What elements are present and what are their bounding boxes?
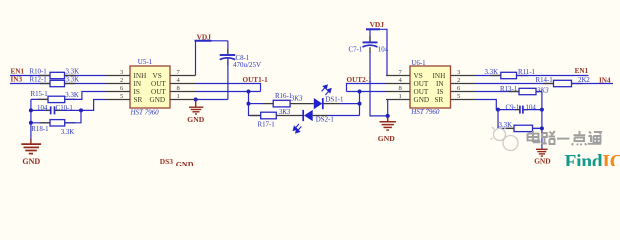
svg-text:3K3: 3K3 [278,108,291,116]
svg-text:2: 2 [457,77,460,84]
resistor R11-1 body [501,72,517,78]
svg-text:HST 7960: HST 7960 [410,108,440,116]
svg-text:DS3: DS3 [160,157,173,166]
capacitor C7-1 bottom lead (dark) [369,47,371,53]
pin 1 GND (U6 left) [386,99,410,101]
svg-text:3.3K: 3.3K [61,129,75,136]
wire U5 pin 8 (OUT1 net) [196,91,261,93]
power VDJ (left) bar [195,40,212,42]
wire C7-1 bottom down to GND net [370,52,388,116]
LED DS2-1 light arrows [293,124,301,133]
resistor R18-1 leads (dark) [40,122,50,124]
ground stem bottom-left (dark red) [30,139,32,144]
power VDJ (right) bar [366,28,380,30]
wire R13-1 to GND vertical [536,91,542,93]
svg-text:C7-1: C7-1 [349,47,363,54]
capacitor C10-1 plates [50,106,52,114]
svg-text:GND: GND [150,96,166,104]
wire GND vertical (right cluster) [541,92,543,150]
wire GND vertical to R15-1 [31,98,48,100]
pin 3 INH (U6 right) [451,75,476,77]
wire R10-1 to U5 pin 3 [65,75,107,77]
wire OUT2 bend to U6 pin 4 [347,84,387,92]
wire C8-1 bottom to U5 GND net [227,58,229,99]
svg-text:3.3K: 3.3K [66,69,80,76]
pin 5 SR (U6 right) [451,99,476,101]
svg-text:OUT: OUT [151,88,166,96]
pin 5 SR (U5 left) [106,99,130,101]
svg-text:R18-1: R18-1 [31,126,49,133]
resistor R12-1 leads (dark) [40,83,50,85]
resistor bottom-right leads (dark) [504,127,514,129]
wire bottom resistor to GND vertical [533,127,542,129]
svg-text:GND: GND [22,157,40,166]
pin 6 IS (U5 left) [106,91,130,93]
svg-text:GND: GND [187,115,204,124]
wire OUT1 down to LED branches [249,92,261,116]
resistor R10-1 leads (dark) [40,75,50,77]
svg-text:SR: SR [134,96,143,104]
resistor R12-1 body [50,80,65,86]
wire R14-1 to IN4 port [572,83,614,85]
pin 7 VS (U6 left) [386,75,410,77]
junction R16 branch (dot) [247,102,251,106]
watermark text 电路一点通 (simplified strokes) [528,131,602,145]
junction OUT1 (dot) [247,90,251,94]
capacitor C7-1 bottom plate (curved) [363,45,378,47]
wire DS2-1 to OUT2 vertical [328,115,360,117]
wire U6 pin 3 to R11-1 [475,75,501,77]
LED DS1-1 right lead (dark) [323,103,339,105]
svg-text:IN3: IN3 [11,76,23,84]
svg-text:FindIC: FindIC [565,152,620,166]
resistor R17-1 right lead joins LED DS2 lead (dark) [276,115,302,117]
wire C9-1 to GND vertical [523,109,542,111]
wire VDJ bar to C8 top [196,40,228,42]
resistor R14-1 body [554,80,572,86]
wire GND vertical (left cluster) [30,99,32,138]
resistor R15-1 body [48,96,65,102]
junction C7 return (dot) [386,114,390,118]
LED DS1-1 light arrows [322,85,331,95]
ground symbol under U5 [189,100,203,115]
junction node C10 right (dot) [79,108,83,112]
LED DS2-1 right lead (dark) [313,115,328,117]
junction C9 left (dot) [496,108,500,112]
resistor R11-1 leads (dark) [491,75,501,77]
svg-text:IN: IN [436,80,444,88]
wire GND vertical to C10-1 [31,109,51,111]
svg-text:3.3K: 3.3K [66,77,80,84]
pin 4 OUT (U6 left) [386,83,410,85]
svg-text:GND: GND [176,161,194,167]
svg-text:470u/25V: 470u/25V [233,61,261,69]
capacitor C10-1 leads (dark) [45,109,50,111]
wire EN1 to R10-1 [10,75,50,77]
svg-text:OUT: OUT [414,80,429,88]
capacitor C8-1 bottom plate (curved, electrolytic) [220,58,236,60]
svg-text:INH: INH [433,72,446,80]
svg-text:2: 2 [120,77,123,84]
wire R11-1 to EN1 port [517,75,589,77]
svg-text:1: 1 [177,93,180,100]
pin 8 OUT (U6 left) [386,91,410,93]
svg-text:VS: VS [153,72,162,80]
svg-text:IN: IN [134,80,142,88]
char 路 [541,131,555,144]
wire U5 pin 5 to C10/R18 net (jog down) [81,100,106,111]
wire VDJ down to U5 pin 7 [195,41,197,76]
resistor R16-1 left lead (dark) [263,103,273,105]
wire U6 GND vertical [387,100,389,118]
wire R18-1 right up to C10 node [65,110,81,122]
resistor R13-1 leads (dark) [509,91,519,93]
capacitor C9-1 plates [519,106,521,114]
svg-text:IN4: IN4 [599,76,611,84]
svg-text:IS: IS [134,88,140,96]
svg-text:3.3K: 3.3K [485,69,499,76]
wire VDJ bar to C7 top [369,29,371,41]
junction R18 left (dot) [29,121,33,125]
char 一 [557,138,569,140]
wire R12-1 to U5 pin 2 [65,83,107,85]
svg-text:R10-1: R10-1 [30,68,48,75]
LED DS2-1 (pointing left) [302,110,304,121]
char 通 [588,132,601,144]
svg-text:EN1: EN1 [575,67,589,75]
svg-text:OUT: OUT [151,80,166,88]
svg-text:3.3K: 3.3K [65,92,79,99]
svg-text:DS2-1: DS2-1 [316,117,335,124]
watermark logo circles [491,127,519,151]
wire junction to R16-1 [249,103,264,105]
svg-text:VDJ: VDJ [370,20,385,29]
resistor R18-1 body [50,120,65,126]
wire junction down to bottom resistor [498,110,514,129]
junction C9 right (dot) [540,108,544,112]
wire junction to C9-1 [498,109,520,111]
wire U6 pin 2 to R14-1 [475,83,554,85]
resistor R15-1 leads (dark) [38,98,49,100]
pin 2 IN (U6 right) [451,83,476,85]
junction OUT2 (dot) [358,90,362,94]
wire GND vertical to R18-1 [31,122,50,124]
wire VDJ bar right and down to U6 pin 7 [370,29,387,75]
ground symbol under U6 [380,118,397,131]
resistor R17-1 left lead (dark) [250,115,260,117]
svg-text:EN1: EN1 [11,68,25,76]
wire OUT2 net to U6 pin 8 [347,91,387,93]
capacitor C8-1 top lead (dark) [227,49,229,55]
junction bottom resistor right (dot) [540,126,544,130]
char 电 [528,131,540,142]
pin 4 OUT (U5 right) [170,83,196,85]
svg-text:OUT: OUT [414,88,429,96]
wire OUT2 vertical to LED branches [359,92,361,116]
junction DS1 branch right (dot) [358,102,362,106]
capacitor C8-1 bottom lead (dark) [227,60,229,66]
IC U6-1 body [410,66,451,108]
pin 7 VS (U5 right) [170,75,196,77]
svg-text:VS: VS [414,72,423,80]
svg-text:R15-1: R15-1 [31,91,49,98]
svg-text:3K3: 3K3 [536,86,549,94]
svg-text:GND: GND [414,96,430,104]
capacitor C7-1 top plate [363,41,378,43]
svg-text:SR: SR [435,96,444,104]
pin 1 GND (U5 right) [170,99,196,101]
svg-text:GND: GND [378,134,395,143]
wire U5 pin 1 to C8 vertical [196,99,228,101]
wire IN3 to R12-1 [10,83,50,85]
wire down to capacitor C8-1 [227,41,229,54]
svg-text:DS1-1: DS1-1 [325,96,344,103]
svg-text:1: 1 [399,93,402,100]
IC U5-1 body [130,66,170,108]
junction C10 left (dot) [29,108,33,112]
svg-text:3K3: 3K3 [290,95,303,103]
junction U5 pin1 GND (dot) [194,98,198,102]
wire DS1-1 to OUT2 vertical [339,103,360,105]
U5 pin names [134,72,167,104]
capacitor C8-1 top plate [220,54,236,56]
resistor R14-1 leads (dark) [543,83,553,85]
wire U5 pin 4 to OUT1 bend [196,84,261,92]
capacitor C9-1 leads (dark) [515,109,520,111]
resistor R16-1 right lead joins LED lead (dark) [290,103,314,105]
svg-text:OUT1-1: OUT1-1 [243,76,269,84]
svg-text:IS: IS [437,88,443,96]
svg-text:HST 7960: HST 7960 [130,109,160,117]
wire U6 pin 6 to R13-1 [475,91,519,93]
pin 8 OUT (U5 right) [170,91,196,93]
resistor R(bottom right) body [514,125,533,131]
svg-text:U5-1: U5-1 [138,58,153,66]
svg-text:R12-1: R12-1 [30,76,48,83]
resistor R17-1 body [261,112,277,119]
wire C10-1 to node at x81 [55,109,81,111]
svg-text:R17-1: R17-1 [258,121,276,128]
wire U6 pin 5 down to C9 net [475,100,498,110]
wire R15-1 to U5 pin 6 (jog up) [65,92,106,100]
pin 2 IN (U5 left) [106,83,130,85]
pin 3 INH (U5 left) [106,75,130,77]
ground symbol bottom-left [21,144,41,154]
ground symbol bottom-right [536,149,548,156]
svg-text:GND: GND [534,157,550,166]
resistor R10-1 body [50,72,65,78]
char 点 [572,131,586,145]
resistor R16-1 body [273,100,290,107]
LED DS1-1 (pointing right) [314,98,322,109]
svg-text:104: 104 [378,47,389,54]
U6 pin names [414,72,446,104]
pin 6 IS (U6 right) [451,91,476,93]
svg-text:INH: INH [134,72,147,80]
resistor R13-1 body [519,88,536,94]
capacitor C7-1 top lead (dark) [369,36,371,42]
svg-text:R11-1: R11-1 [518,69,536,76]
